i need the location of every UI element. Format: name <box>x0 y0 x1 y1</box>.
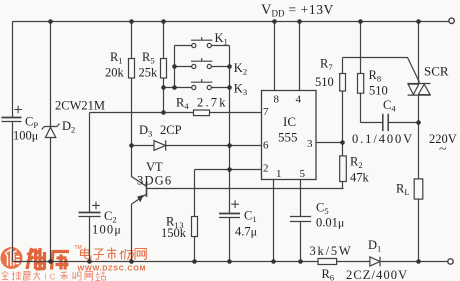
svg-text:1: 1 <box>276 168 282 180</box>
svg-text:2CZ/400V: 2CZ/400V <box>346 268 408 281</box>
svg-text:WWW.DZSC.COM: WWW.DZSC.COM <box>78 263 147 272</box>
svg-text:I C: I C <box>45 272 56 281</box>
svg-text:2CP: 2CP <box>160 123 182 137</box>
svg-text:~: ~ <box>439 142 447 157</box>
svg-text:2CW21M: 2CW21M <box>55 99 105 113</box>
svg-text:0.1/400V: 0.1/400V <box>352 132 414 146</box>
svg-text:0.01μ: 0.01μ <box>316 216 344 230</box>
svg-text:3k/5W: 3k/5W <box>310 244 353 258</box>
svg-text:25k: 25k <box>139 66 159 80</box>
svg-text:3DG6: 3DG6 <box>137 174 172 188</box>
svg-text:2: 2 <box>263 163 269 175</box>
svg-text:IC: IC <box>283 114 296 129</box>
svg-text:3: 3 <box>307 138 313 150</box>
svg-text:100μ: 100μ <box>92 223 122 237</box>
svg-text:4: 4 <box>296 94 302 106</box>
svg-text:47k: 47k <box>350 171 370 185</box>
svg-text:510: 510 <box>315 75 334 89</box>
svg-text:8: 8 <box>274 94 280 106</box>
svg-text:4.7μ: 4.7μ <box>235 225 257 239</box>
svg-text:100μ: 100μ <box>13 129 38 143</box>
svg-text:VT: VT <box>146 160 163 174</box>
svg-text:20k: 20k <box>105 66 125 80</box>
svg-text:150k: 150k <box>161 226 187 240</box>
svg-text:SCR: SCR <box>424 64 449 79</box>
svg-text:555: 555 <box>278 130 298 145</box>
svg-text:5: 5 <box>300 168 306 180</box>
svg-text:510: 510 <box>369 84 388 98</box>
svg-text:7: 7 <box>263 106 269 118</box>
svg-text:2.7k: 2.7k <box>197 96 228 110</box>
svg-text:6: 6 <box>263 140 269 152</box>
